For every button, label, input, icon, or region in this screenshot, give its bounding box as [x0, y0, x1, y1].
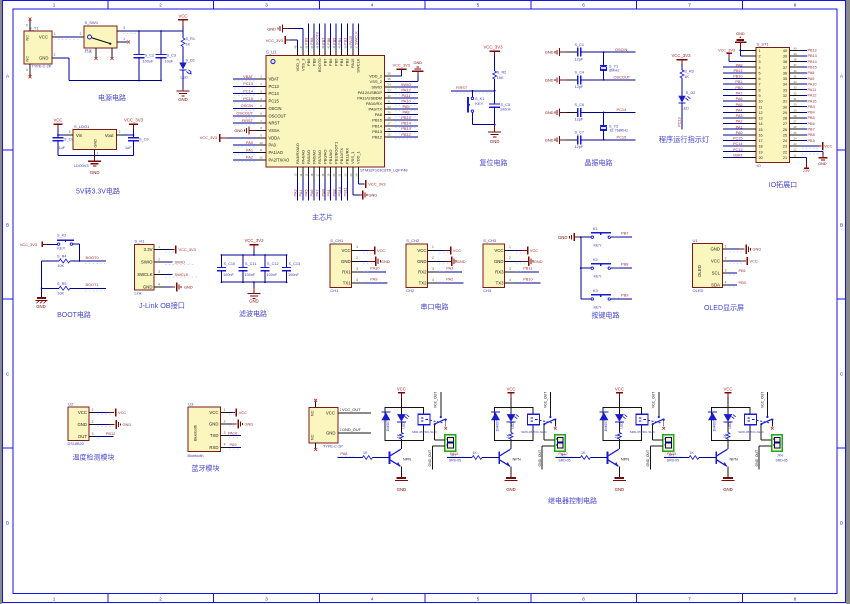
svg-text:PB8: PB8 — [311, 58, 316, 66]
svg-text:2: 2 — [432, 256, 434, 260]
svg-text:S_ST1: S_ST1 — [757, 42, 770, 47]
svg-text:TX1: TX1 — [343, 281, 351, 286]
svg-text:PC13: PC13 — [677, 117, 682, 127]
svg-text:2: 2 — [159, 597, 162, 602]
svg-text:13: 13 — [759, 117, 763, 121]
svg-text:36: 36 — [387, 72, 391, 76]
svg-text:温度检测模块: 温度检测模块 — [73, 453, 115, 462]
svg-text:PB14: PB14 — [401, 121, 411, 126]
svg-text:S_T1: S_T1 — [29, 26, 39, 31]
svg-text:8: 8 — [794, 2, 797, 7]
svg-text:CH3: CH3 — [483, 288, 492, 293]
svg-text:PA1: PA1 — [246, 147, 253, 152]
svg-text:GND: GND — [545, 137, 554, 142]
svg-text:PB8: PB8 — [808, 133, 815, 137]
svg-text:PB2/BOOT1: PB2/BOOT1 — [334, 141, 339, 164]
svg-text:40: 40 — [783, 49, 787, 53]
svg-text:25: 25 — [387, 133, 391, 137]
svg-text:1N4007: 1N4007 — [604, 420, 608, 431]
svg-text:PA15: PA15 — [667, 451, 676, 456]
svg-text:31: 31 — [794, 97, 797, 101]
svg-text:OSCOUT: OSCOUT — [614, 75, 631, 80]
svg-text:VCC_3V3: VCC_3V3 — [718, 48, 735, 52]
svg-text:PB10: PB10 — [337, 186, 342, 196]
svg-text:1: 1 — [97, 152, 99, 156]
svg-text:PB4: PB4 — [339, 58, 344, 66]
svg-text:GND_OUT: GND_OUT — [755, 450, 759, 467]
svg-text:100nF: 100nF — [267, 273, 278, 277]
svg-text:GND: GND — [753, 247, 762, 252]
svg-text:GND: GND — [234, 128, 243, 133]
svg-text:PB8: PB8 — [309, 38, 314, 45]
svg-text:PB0/AO: PB0/AO — [322, 150, 327, 164]
svg-text:PB13: PB13 — [372, 129, 383, 134]
svg-text:PA8: PA8 — [375, 112, 383, 117]
svg-text:29: 29 — [794, 108, 797, 112]
svg-text:3: 3 — [158, 270, 160, 274]
svg-text:4: 4 — [224, 443, 226, 447]
svg-text:NC: NC — [26, 56, 30, 62]
svg-text:PB9: PB9 — [621, 292, 628, 297]
svg-text:14: 14 — [759, 122, 763, 126]
svg-text:BOOT1: BOOT1 — [86, 282, 99, 287]
svg-text:NPN: NPN — [621, 457, 629, 462]
svg-text:SRD-05: SRD-05 — [559, 458, 571, 462]
svg-text:BOOT电路: BOOT电路 — [57, 310, 91, 319]
svg-text:VCC: VCC — [494, 248, 503, 253]
svg-text:PC13: PC13 — [243, 81, 253, 86]
svg-text:27: 27 — [783, 122, 787, 126]
svg-text:VCC: VCC — [239, 410, 247, 415]
svg-text:PC15: PC15 — [617, 134, 627, 139]
svg-text:4: 4 — [158, 283, 160, 287]
svg-text:8: 8 — [794, 597, 797, 602]
svg-text:S_C1: S_C1 — [575, 43, 585, 47]
svg-text:Bluetooth: Bluetooth — [194, 425, 198, 441]
svg-text:18: 18 — [759, 145, 763, 149]
svg-text:OSCIN: OSCIN — [241, 103, 254, 108]
svg-text:BOOT0: BOOT0 — [315, 31, 320, 45]
svg-text:12pF: 12pF — [575, 58, 584, 62]
svg-text:37: 37 — [783, 66, 787, 70]
svg-text:PB1: PB1 — [326, 189, 331, 196]
svg-text:VCC_OUT: VCC_OUT — [543, 392, 547, 408]
svg-text:VBAT: VBAT — [243, 74, 253, 79]
svg-text:PB12: PB12 — [808, 49, 817, 53]
svg-text:RX3: RX3 — [495, 270, 504, 275]
svg-text:PA3: PA3 — [446, 266, 453, 271]
svg-text:4: 4 — [725, 280, 727, 284]
svg-text:OLED显示屏: OLED显示屏 — [704, 304, 744, 312]
svg-text:2.5V: 2.5V — [803, 169, 811, 173]
svg-text:PC15: PC15 — [269, 99, 280, 104]
svg-text:PB4: PB4 — [337, 37, 342, 45]
svg-text:4: 4 — [371, 597, 374, 602]
svg-text:PB0: PB0 — [739, 280, 747, 285]
svg-text:PA12: PA12 — [401, 87, 410, 92]
svg-text:VSSA: VSSA — [269, 128, 280, 133]
svg-text:PA12: PA12 — [808, 94, 817, 98]
svg-text:PA10: PA10 — [370, 266, 380, 271]
svg-text:PA8: PA8 — [736, 63, 743, 67]
svg-text:6: 6 — [582, 2, 585, 7]
svg-text:15: 15 — [759, 128, 763, 132]
svg-text:39: 39 — [783, 55, 787, 59]
svg-text:PC13: PC13 — [269, 84, 280, 89]
svg-text:1: 1 — [54, 32, 56, 36]
svg-text:SWCLK: SWCLK — [356, 58, 361, 73]
svg-text:S_C11: S_C11 — [245, 262, 256, 266]
svg-text:PB0: PB0 — [320, 188, 325, 196]
svg-text:PA8: PA8 — [808, 71, 815, 75]
svg-text:PA15: PA15 — [350, 58, 355, 68]
svg-text:VCC: VCC — [723, 386, 732, 391]
svg-text:VCC_OUT: VCC_OUT — [342, 407, 361, 412]
svg-text:3: 3 — [759, 60, 761, 64]
svg-text:RX2: RX2 — [418, 270, 427, 275]
svg-text:31: 31 — [387, 99, 391, 103]
svg-text:PA12/USBDP: PA12/USBDP — [358, 90, 383, 95]
svg-text:GND: GND — [413, 60, 422, 65]
svg-text:PA0: PA0 — [269, 143, 277, 148]
svg-text:RXD: RXD — [209, 445, 218, 450]
svg-text:1: 1 — [53, 2, 56, 7]
svg-text:VCC_3V3: VCC_3V3 — [244, 238, 264, 243]
svg-text:TYPE-C-2P: TYPE-C-2P — [323, 445, 343, 449]
svg-text:PB12: PB12 — [372, 134, 383, 139]
svg-text:1: 1 — [725, 245, 727, 249]
svg-text:7: 7 — [688, 2, 691, 7]
svg-text:1: 1 — [432, 245, 434, 249]
svg-text:PB7: PB7 — [808, 127, 815, 131]
svg-text:J-Link OB接口: J-Link OB接口 — [139, 301, 185, 310]
svg-text:S_D1: S_D1 — [186, 59, 196, 63]
svg-text:PB10/TX: PB10/TX — [339, 148, 344, 164]
svg-text:DS18B20: DS18B20 — [68, 442, 84, 446]
svg-text:GND_OUT: GND_OUT — [428, 450, 432, 467]
svg-text:2: 2 — [509, 256, 511, 260]
svg-text:16: 16 — [759, 133, 763, 137]
svg-text:VDD_2: VDD_2 — [369, 73, 383, 78]
svg-text:100nF: 100nF — [223, 273, 234, 277]
svg-text:继电器控制电路: 继电器控制电路 — [548, 496, 597, 505]
svg-text:LED: LED — [181, 76, 189, 80]
svg-text:9: 9 — [759, 94, 761, 98]
svg-text:1N4007: 1N4007 — [386, 420, 390, 431]
svg-text:SWIO: SWIO — [141, 260, 153, 265]
svg-text:PA2/TX/AO: PA2/TX/AO — [269, 157, 290, 162]
svg-text:GND: GND — [94, 139, 98, 148]
svg-text:12: 12 — [759, 111, 763, 115]
svg-text:PB9: PB9 — [306, 58, 311, 66]
svg-text:复位电路: 复位电路 — [480, 158, 508, 167]
svg-text:VCC: VCC — [78, 410, 87, 415]
svg-text:PA6/AO: PA6/AO — [311, 150, 316, 164]
svg-text:PB3: PB3 — [342, 38, 347, 45]
svg-text:SCL: SCL — [712, 271, 721, 276]
svg-text:GND: GND — [209, 422, 219, 427]
svg-text:31: 31 — [783, 100, 787, 104]
svg-text:VCC: VCC — [453, 248, 461, 253]
svg-text:38: 38 — [783, 60, 787, 64]
svg-text:28: 28 — [794, 114, 797, 118]
svg-text:VCC_OUT: VCC_OUT — [434, 392, 438, 408]
svg-text:VCC: VCC — [711, 259, 720, 264]
svg-text:1: 1 — [759, 49, 761, 53]
svg-text:PB11: PB11 — [342, 187, 347, 196]
svg-text:VBAT: VBAT — [733, 153, 743, 157]
svg-text:VCC_3V3: VCC_3V3 — [393, 63, 410, 68]
svg-text:SRD-05: SRD-05 — [449, 458, 461, 462]
svg-text:0: 0 — [26, 24, 28, 28]
svg-text:32: 32 — [794, 91, 797, 95]
svg-text:PA2: PA2 — [246, 155, 253, 160]
svg-text:VCC: VCC — [118, 410, 126, 415]
svg-text:S_C5: S_C5 — [501, 103, 511, 107]
svg-text:PB9: PB9 — [304, 38, 309, 45]
svg-text:20: 20 — [759, 156, 763, 160]
svg-text:STM32F103C8T6_LQFP48: STM32F103C8T6_LQFP48 — [360, 168, 408, 173]
svg-text:PA9: PA9 — [370, 277, 377, 282]
svg-text:SRD-05: SRD-05 — [776, 458, 788, 462]
svg-text:2: 2 — [356, 256, 358, 260]
svg-text:1: 1 — [509, 245, 511, 249]
svg-text:VCC: VCC — [530, 248, 538, 253]
svg-text:NC: NC — [26, 35, 30, 41]
svg-text:OSCOUT: OSCOUT — [236, 111, 253, 116]
svg-text:8MHz: 8MHz — [609, 69, 619, 73]
svg-text:1: 1 — [92, 408, 94, 412]
svg-text:10K: 10K — [57, 264, 64, 268]
svg-text:1K: 1K — [690, 451, 695, 455]
svg-text:OSCOUT: OSCOUT — [269, 113, 287, 118]
svg-text:GND_OUT: GND_OUT — [538, 450, 542, 467]
svg-text:GND: GND — [723, 487, 733, 492]
svg-text:PA10: PA10 — [228, 430, 238, 435]
svg-text:U2: U2 — [68, 401, 74, 406]
svg-text:PB3: PB3 — [345, 58, 350, 66]
svg-text:GND: GND — [77, 422, 87, 427]
svg-text:26: 26 — [387, 127, 391, 131]
svg-text:27: 27 — [387, 122, 391, 126]
svg-text:S_D2: S_D2 — [686, 91, 696, 95]
svg-text:34: 34 — [387, 83, 391, 87]
svg-text:开关: 开关 — [85, 48, 93, 53]
svg-text:PB2: PB2 — [331, 189, 336, 196]
svg-text:VCC: VCC — [53, 118, 62, 123]
svg-text:VSS_1: VSS_1 — [350, 151, 355, 164]
svg-text:主芯片: 主芯片 — [312, 213, 333, 222]
svg-text:24: 24 — [794, 136, 797, 140]
svg-text:3: 3 — [265, 597, 268, 602]
svg-text:BOOT0: BOOT0 — [317, 58, 322, 72]
svg-text:PA9: PA9 — [808, 77, 815, 81]
svg-text:PA9: PA9 — [230, 442, 237, 447]
svg-text:SDA: SDA — [711, 282, 720, 287]
svg-text:FIRST: FIRST — [456, 85, 468, 90]
svg-text:1: 1 — [224, 408, 226, 412]
svg-text:GND: GND — [506, 487, 516, 492]
svg-text:KEY: KEY — [57, 246, 65, 251]
svg-text:5: 5 — [759, 71, 761, 75]
svg-text:PB0: PB0 — [735, 86, 742, 90]
svg-text:PA9: PA9 — [402, 104, 409, 109]
svg-text:10K: 10K — [497, 76, 504, 80]
svg-text:NPN: NPN — [730, 457, 738, 462]
svg-text:4: 4 — [432, 278, 434, 282]
svg-text:VCC: VCC — [824, 145, 832, 149]
svg-text:NPN: NPN — [513, 457, 521, 462]
svg-text:BOOT0: BOOT0 — [86, 255, 100, 260]
svg-text:1K: 1K — [186, 43, 191, 47]
svg-text:36: 36 — [794, 69, 797, 73]
svg-text:S_CH2: S_CH2 — [406, 238, 420, 243]
svg-text:VCC_OUT: VCC_OUT — [760, 392, 764, 408]
svg-text:10: 10 — [759, 100, 763, 104]
svg-text:PB3: PB3 — [808, 105, 815, 109]
svg-text:GND: GND — [534, 259, 543, 264]
svg-text:1K: 1K — [363, 451, 368, 455]
svg-text:GND: GND — [494, 259, 504, 264]
svg-text:TX2: TX2 — [419, 281, 427, 286]
svg-text:22: 22 — [783, 150, 787, 154]
svg-text:2: 2 — [159, 2, 162, 7]
svg-text:4: 4 — [759, 66, 761, 70]
svg-text:10: 10 — [259, 141, 263, 145]
svg-text:26: 26 — [794, 125, 797, 129]
svg-text:VCC_3V3: VCC_3V3 — [368, 182, 385, 187]
svg-text:VCC: VCC — [209, 410, 218, 415]
svg-text:7: 7 — [688, 597, 691, 602]
svg-text:PA8: PA8 — [402, 110, 409, 115]
svg-text:VCC_3V3: VCC_3V3 — [20, 242, 37, 247]
svg-text:PB5: PB5 — [808, 116, 815, 120]
svg-text:KEY: KEY — [594, 304, 602, 309]
svg-text:21: 21 — [783, 156, 787, 160]
svg-text:PA4/AO: PA4/AO — [300, 150, 305, 164]
svg-text:S_C8: S_C8 — [64, 138, 74, 142]
svg-text:PA5: PA5 — [736, 103, 743, 107]
svg-text:K1: K1 — [593, 226, 599, 231]
svg-text:2: 2 — [158, 258, 160, 262]
svg-text:VCC_3V3: VCC_3V3 — [124, 118, 144, 123]
svg-text:U1: U1 — [693, 238, 699, 243]
svg-text:LED: LED — [682, 106, 690, 110]
svg-text:NC: NC — [311, 434, 315, 440]
svg-text:LDO3V3: LDO3V3 — [74, 164, 89, 168]
svg-text:KEY: KEY — [594, 243, 602, 248]
svg-text:PB6: PB6 — [326, 38, 331, 45]
svg-text:1K: 1K — [684, 75, 689, 79]
svg-text:GND: GND — [710, 247, 720, 252]
svg-text:S_SW1: S_SW1 — [85, 20, 99, 25]
svg-text:PA10: PA10 — [401, 98, 411, 103]
svg-text:11: 11 — [259, 148, 262, 152]
svg-text:1uF: 1uF — [59, 146, 66, 150]
svg-text:3: 3 — [725, 268, 727, 272]
svg-text:GND: GND — [545, 110, 554, 115]
svg-text:B: B — [840, 223, 843, 228]
svg-text:S_C12: S_C12 — [267, 262, 279, 266]
svg-text:10uF: 10uF — [165, 60, 174, 64]
svg-text:S_R2: S_R2 — [497, 71, 507, 75]
svg-text:VCC: VCC — [397, 386, 406, 391]
svg-text:PA0: PA0 — [246, 140, 254, 145]
svg-text:PB9: PB9 — [808, 139, 815, 143]
svg-text:34: 34 — [783, 83, 787, 87]
svg-text:2: 2 — [224, 419, 226, 423]
svg-text:PB11: PB11 — [733, 69, 742, 73]
svg-text:VCC: VCC — [39, 35, 48, 40]
svg-text:PC14: PC14 — [243, 89, 254, 94]
svg-text:PC13: PC13 — [733, 148, 743, 152]
svg-text:U3: U3 — [188, 401, 194, 406]
svg-text:PA15: PA15 — [808, 99, 817, 103]
svg-text:GND: GND — [381, 259, 390, 264]
svg-text:2: 2 — [759, 55, 761, 59]
svg-text:GND: GND — [326, 430, 336, 435]
svg-text:NPN: NPN — [403, 457, 411, 462]
svg-text:S_R1: S_R1 — [186, 37, 196, 41]
svg-text:S_C7: S_C7 — [575, 131, 585, 135]
svg-text:B: B — [6, 223, 9, 228]
svg-text:VBAT: VBAT — [269, 77, 280, 82]
svg-text:32.768KHz: 32.768KHz — [609, 129, 628, 133]
svg-text:25: 25 — [783, 133, 787, 137]
svg-text:GND: GND — [397, 487, 407, 492]
svg-text:滤波电路: 滤波电路 — [239, 309, 267, 318]
svg-text:2: 2 — [92, 420, 94, 424]
svg-text:3: 3 — [432, 267, 434, 271]
svg-text:25: 25 — [794, 131, 797, 135]
svg-text:CH1: CH1 — [330, 288, 339, 293]
svg-text:GND: GND — [369, 193, 378, 198]
svg-text:VCC: VCC — [615, 386, 624, 391]
svg-text:12pF: 12pF — [575, 85, 584, 89]
svg-text:PA0: PA0 — [736, 131, 743, 135]
svg-text:PB12: PB12 — [106, 431, 116, 436]
svg-text:30: 30 — [794, 103, 797, 107]
svg-text:SRD-05: SRD-05 — [667, 458, 679, 462]
svg-text:OLED: OLED — [693, 288, 704, 293]
svg-text:2: 2 — [725, 257, 727, 261]
svg-text:S_C10: S_C10 — [224, 262, 236, 266]
svg-text:33: 33 — [387, 88, 391, 92]
svg-text:K3: K3 — [593, 288, 599, 293]
svg-text:VDD_3: VDD_3 — [295, 58, 300, 72]
svg-text:8: 8 — [759, 88, 761, 92]
svg-text:SWIO: SWIO — [175, 260, 185, 265]
svg-text:PA8: PA8 — [340, 451, 347, 456]
svg-text:GND: GND — [39, 56, 49, 61]
svg-text:电源电路: 电源电路 — [98, 93, 126, 102]
svg-text:PB13: PB13 — [808, 54, 817, 58]
svg-text:VCC: VCC — [750, 259, 758, 264]
svg-text:1N4007: 1N4007 — [495, 420, 499, 431]
svg-text:按键电路: 按键电路 — [592, 311, 620, 320]
svg-text:1: 1 — [158, 245, 160, 249]
svg-text:34: 34 — [794, 80, 797, 84]
svg-text:GND: GND — [736, 31, 745, 36]
svg-text:VCC: VCC — [178, 14, 187, 19]
svg-text:10K: 10K — [57, 292, 64, 296]
svg-text:S_R3: S_R3 — [684, 70, 694, 74]
svg-text:PB15: PB15 — [401, 115, 411, 120]
svg-text:PB6: PB6 — [808, 122, 815, 126]
svg-text:FIRST: FIRST — [242, 118, 254, 123]
svg-text:VCC: VCC — [506, 386, 515, 391]
svg-text:GND: GND — [249, 299, 259, 304]
